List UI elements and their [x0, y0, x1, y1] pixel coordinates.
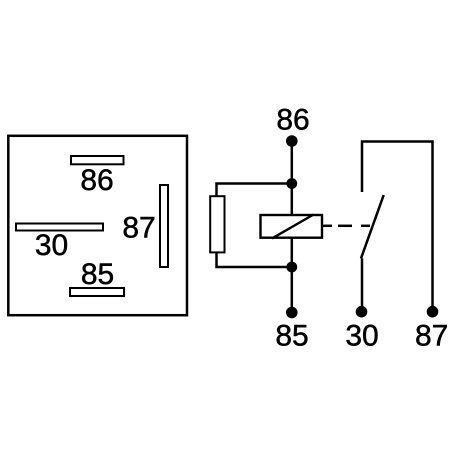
- svg-text:87: 87: [415, 320, 448, 353]
- svg-text:87: 87: [122, 212, 155, 245]
- svg-text:85: 85: [81, 258, 114, 291]
- svg-text:86: 86: [276, 104, 309, 137]
- svg-text:85: 85: [275, 320, 308, 353]
- svg-text:30: 30: [345, 320, 378, 353]
- svg-text:30: 30: [35, 229, 68, 262]
- svg-text:86: 86: [80, 164, 113, 197]
